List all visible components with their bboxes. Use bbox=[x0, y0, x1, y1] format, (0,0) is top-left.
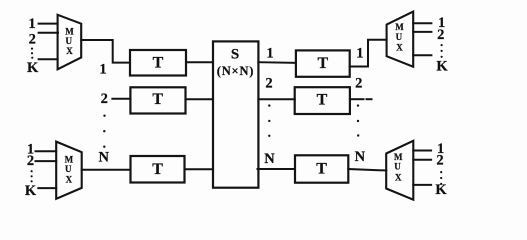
svg-text:X: X bbox=[396, 43, 403, 53]
svg-text:T: T bbox=[317, 91, 328, 108]
block T3 (left transcoder row N) bbox=[131, 156, 185, 183]
wire S to T6 bbox=[258, 168, 296, 170]
svg-text:U: U bbox=[394, 162, 401, 172]
switch S (N x N) bbox=[213, 41, 258, 187]
svg-text:2: 2 bbox=[436, 152, 443, 168]
mux U2 (bottom-left multiplexer) bbox=[56, 142, 81, 199]
ellipsis dots right of S bbox=[268, 104, 270, 137]
ellipsis dots U4 outputs bbox=[440, 171, 442, 185]
ellipsis dots U3 outputs bbox=[441, 44, 443, 58]
svg-text:T: T bbox=[316, 161, 327, 178]
wire U2 input 2 bbox=[36, 160, 57, 162]
wire U1 input 2 bbox=[39, 32, 58, 34]
svg-text:U: U bbox=[66, 36, 73, 46]
svg-text:M: M bbox=[65, 155, 74, 165]
svg-text:1: 1 bbox=[266, 46, 273, 62]
svg-text:1: 1 bbox=[356, 46, 363, 62]
svg-text:2: 2 bbox=[437, 27, 444, 43]
svg-text:N: N bbox=[98, 150, 109, 166]
mux U3 (top-right demultiplexer) bbox=[387, 12, 414, 67]
block T2 (left transcoder row 2) bbox=[130, 87, 185, 113]
svg-text:K: K bbox=[435, 182, 447, 198]
wire U3 output 1 bbox=[413, 22, 431, 24]
wire U2 output to T3 bbox=[82, 169, 131, 171]
svg-text:2: 2 bbox=[29, 32, 36, 48]
block T1 (left transcoder row 1) bbox=[130, 50, 186, 76]
svg-text:2: 2 bbox=[265, 76, 272, 92]
wire U3 output K bbox=[413, 54, 431, 56]
svg-text:S: S bbox=[231, 47, 239, 63]
wire S to T5 bbox=[258, 98, 294, 100]
block T5 (right transcoder row 2) bbox=[295, 87, 350, 114]
svg-text:N: N bbox=[264, 151, 275, 167]
wire U4 output 1 bbox=[413, 150, 431, 152]
wire T1 to S bbox=[186, 61, 213, 63]
ellipsis dots U2 inputs bbox=[31, 170, 33, 182]
wire T5 output stub bbox=[350, 98, 364, 100]
block T6 (right transcoder row N) bbox=[295, 155, 348, 182]
svg-text:K: K bbox=[436, 59, 448, 75]
wire T4 to U3 bbox=[350, 40, 387, 67]
ellipsis dots right column bbox=[357, 104, 360, 136]
svg-text:1: 1 bbox=[28, 16, 35, 32]
svg-text:K: K bbox=[27, 60, 39, 76]
svg-text:T: T bbox=[152, 91, 163, 108]
wire T6 to U4 bbox=[348, 169, 386, 171]
svg-text:X: X bbox=[66, 46, 73, 56]
svg-text:2: 2 bbox=[27, 153, 34, 169]
wire T2 to S bbox=[186, 98, 214, 100]
svg-text:U: U bbox=[65, 164, 72, 174]
ellipsis dots left column bbox=[103, 115, 106, 148]
wire U3 output 2 bbox=[413, 31, 431, 33]
wire U4 output K bbox=[413, 184, 431, 186]
svg-text:M: M bbox=[395, 22, 404, 32]
wire U2 input 1 bbox=[36, 150, 57, 152]
svg-text:T: T bbox=[153, 55, 164, 72]
svg-text:K: K bbox=[25, 183, 37, 199]
wire U1 input K bbox=[39, 58, 58, 60]
svg-text:X: X bbox=[395, 173, 402, 183]
wire into T2 bbox=[112, 98, 130, 100]
wire S to T4 bbox=[258, 61, 296, 64]
wire T5 output dash bbox=[367, 98, 372, 100]
wire U1 input 1 bbox=[39, 23, 58, 25]
svg-text:1: 1 bbox=[99, 61, 106, 77]
svg-text:N: N bbox=[355, 149, 366, 165]
wire U1 output to T1 bbox=[81, 40, 130, 63]
svg-text:X: X bbox=[66, 175, 73, 185]
svg-text:U: U bbox=[396, 32, 403, 42]
wire U2 input K bbox=[38, 187, 56, 189]
mux U1 (top-left multiplexer) bbox=[58, 15, 82, 70]
svg-text:2: 2 bbox=[101, 91, 108, 107]
svg-text:2: 2 bbox=[355, 76, 362, 92]
svg-text:(N×N): (N×N) bbox=[217, 64, 255, 78]
wire T3 to S bbox=[185, 168, 214, 170]
svg-text:T: T bbox=[317, 55, 328, 72]
mux U4 (bottom-right demultiplexer) bbox=[386, 141, 413, 200]
svg-text:M: M bbox=[394, 152, 403, 162]
ellipsis dots U1 inputs bbox=[31, 48, 33, 59]
svg-text:T: T bbox=[152, 161, 163, 178]
wire U4 output 2 bbox=[413, 159, 431, 161]
block T4 (right transcoder row 1) bbox=[296, 50, 350, 76]
